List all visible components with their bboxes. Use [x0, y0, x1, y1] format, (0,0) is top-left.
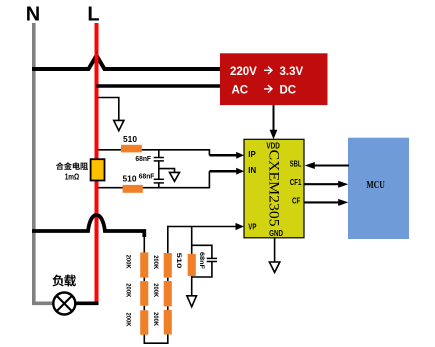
svg-text:VP: VP: [248, 222, 256, 232]
wire: [167, 278, 169, 281]
svg-text:200K: 200K: [152, 255, 159, 269]
shunt resistor RS alloy: [91, 159, 105, 180]
svg-text:AC: AC: [232, 84, 249, 96]
arrow into VDD: [270, 130, 278, 140]
wire to divider column 1: [143, 236, 145, 253]
svg-text:IN: IN: [248, 165, 256, 175]
capacitor C1 68nF: [158, 150, 160, 157]
AC-DC converter U2: [220, 53, 328, 105]
arrow into MCU CF: [338, 199, 348, 206]
svg-text:200K: 200K: [152, 312, 159, 326]
wire L live vertical: [95, 23, 99, 304]
resistor R5 200K: [140, 310, 148, 335]
ground G4: [269, 262, 279, 272]
wire L over hop: [95, 53, 99, 68]
arrow into IP: [236, 152, 244, 159]
svg-text:200K: 200K: [152, 283, 159, 297]
arrow into MCU CF1: [338, 181, 348, 188]
resistor R3 200K: [140, 252, 148, 277]
svg-text:CF1: CF1: [290, 178, 302, 187]
svg-text:SBL: SBL: [290, 160, 302, 169]
svg-text:200K: 200K: [124, 313, 131, 327]
resistor R7 200K: [164, 281, 172, 306]
wire mains top with hop over L: [32, 56, 220, 70]
wire into IP: [209, 154, 237, 157]
svg-text:CXEM2305: CXEM2305: [266, 150, 282, 227]
svg-text:DC: DC: [280, 84, 297, 96]
wire VP node down to R9: [191, 227, 193, 254]
wire lamp to L black: [76, 301, 99, 305]
svg-text:N: N: [26, 4, 40, 26]
wire N neutral vertical: [32, 23, 36, 305]
arrow into IN: [236, 168, 244, 175]
svg-text:220V: 220V: [230, 66, 257, 78]
label alloy resistor: [56, 162, 88, 170]
capacitor C3 68nF parallel: [192, 245, 212, 258]
svg-text:200K: 200K: [124, 283, 131, 297]
wire SBL from MCU: [313, 164, 349, 166]
resistor R6 200K: [164, 310, 172, 335]
svg-text:L: L: [87, 4, 99, 26]
svg-text:1mΩ: 1mΩ: [65, 173, 80, 182]
svg-text:200K: 200K: [124, 255, 131, 269]
svg-text:CF: CF: [292, 197, 300, 206]
chip U1 CXEM2305: [244, 139, 304, 238]
wire bottom U: [144, 335, 168, 344]
wire GND chip down: [274, 238, 276, 262]
capacitor C2 68nF: [154, 178, 164, 180]
lamp LOAD: [53, 293, 75, 315]
wire to ground G2: [159, 169, 175, 173]
wire L to R1 top branch: [99, 150, 210, 156]
svg-text:510: 510: [175, 253, 182, 269]
wire CF to MCU: [304, 201, 340, 203]
wire VP node to chip: [168, 226, 236, 228]
svg-text:510: 510: [123, 134, 137, 144]
load label: [52, 275, 64, 287]
resistor R8 200K: [164, 253, 172, 278]
arrow into VP: [236, 223, 245, 230]
wire mains bottom with hop over L: [32, 215, 144, 237]
wire: [143, 278, 145, 282]
svg-text:68nF: 68nF: [139, 171, 155, 180]
svg-text:68nF: 68nF: [198, 252, 205, 269]
svg-text:68nF: 68nF: [135, 154, 151, 163]
resistor R1 510: [121, 145, 142, 153]
MCU U3: [348, 138, 409, 239]
arrow into SBL: [305, 162, 315, 169]
wire N to lamp gray: [32, 301, 53, 305]
wire VDD supply: [273, 105, 275, 131]
resistor R9 510: [188, 254, 196, 276]
resistor R4 200K: [140, 281, 148, 306]
wire into IN: [209, 170, 237, 173]
resistor R2 510: [123, 185, 143, 193]
wire below R9: [191, 276, 193, 296]
ground G1: [114, 120, 124, 130]
svg-text:IP: IP: [248, 149, 256, 159]
wire L to R2 bottom branch: [99, 171, 210, 188]
wire CF1 to MCU: [304, 183, 340, 185]
wire L to ground stub: [99, 98, 119, 121]
svg-text:510: 510: [123, 173, 137, 183]
wire: [167, 306, 169, 310]
wire column2 to VP node: [167, 226, 169, 253]
svg-text:3.3V: 3.3V: [280, 66, 304, 78]
ground G3: [187, 296, 197, 307]
wire: [143, 306, 145, 311]
svg-text:MCU: MCU: [366, 180, 385, 191]
ground G2: [170, 172, 180, 181]
wire L to converter: [97, 84, 221, 88]
svg-text:GND: GND: [269, 229, 283, 238]
